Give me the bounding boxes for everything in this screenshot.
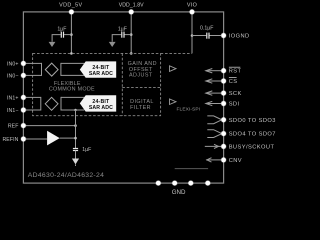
- flexible input diamond (ch0): [45, 63, 58, 76]
- wire SDI with input arrow: [206, 101, 221, 105]
- data flow arrow (gain block to interface): [170, 66, 177, 72]
- svg-text:RST: RST: [229, 69, 242, 75]
- pin IOGND: [221, 33, 226, 38]
- wire CS with input arrow: [206, 79, 221, 83]
- wire to ADC0 (-): [61, 74, 84, 76]
- pin SDO4 TO SDO7: [221, 131, 226, 136]
- svg-text:SAR ADC: SAR ADC: [89, 105, 113, 111]
- svg-text:VDD_1.8V: VDD_1.8V: [119, 2, 144, 8]
- pin GND 1: [156, 181, 161, 186]
- ground (REF): [72, 159, 79, 165]
- svg-text:IN1+: IN1+: [7, 95, 19, 101]
- data flow arrow (filter block to interface): [170, 99, 177, 105]
- pin GND 2: [172, 181, 177, 186]
- node input bar right (ch0): [60, 63, 62, 76]
- svg-text:AD4630-24/AD4632-24: AD4630-24/AD4632-24: [28, 172, 104, 179]
- pin VDD_5V: [69, 10, 74, 15]
- wire VDD_1.8V vertical: [130, 12, 132, 54]
- pin IN1-: [21, 108, 26, 113]
- pin BUSY/SCKOUT: [221, 144, 226, 149]
- dashed divider vertical (digital section): [121, 53, 123, 115]
- chip outline AD4630-24: [23, 12, 223, 183]
- pin GND 3: [188, 181, 193, 186]
- wire buffer output: [60, 137, 76, 139]
- wire IN0-: [26, 74, 42, 76]
- wire cap C2 branch: [112, 35, 121, 42]
- capacitor C4 on REF: [73, 149, 78, 151]
- pin VIO: [190, 10, 195, 15]
- pin CS: [221, 79, 226, 84]
- wire SDO4-SDO7 with output bus arrow: [207, 130, 221, 138]
- op-amp U1 reference buffer: [47, 131, 60, 146]
- svg-text:SDO4 TO SDO7: SDO4 TO SDO7: [229, 132, 276, 138]
- node REF junction: [74, 124, 77, 127]
- pin SDI: [221, 101, 226, 106]
- pin IN0+: [21, 61, 26, 66]
- svg-text:VIO: VIO: [187, 2, 197, 8]
- wire VDD_5V vertical: [70, 12, 72, 54]
- wire cap C3 to IOGND: [192, 35, 206, 37]
- wire to ADC1 (-): [61, 109, 84, 111]
- svg-text:SDO0 TO SDO3: SDO0 TO SDO3: [229, 118, 276, 124]
- pin RST: [221, 68, 226, 73]
- svg-text:IN1−: IN1−: [7, 108, 19, 114]
- svg-text:1µF: 1µF: [118, 27, 127, 33]
- wire REF: [26, 125, 76, 127]
- node buffer output junction: [74, 137, 77, 140]
- label FLEXIBLE COMMON MODE: [49, 81, 95, 93]
- pin IN1+: [21, 95, 26, 100]
- label GAIN AND OFFSET ADJUST: [128, 61, 157, 78]
- wire RST with input arrow: [206, 69, 221, 73]
- node VDD_1.8V box junction: [130, 52, 133, 55]
- ground (C2): [109, 42, 116, 47]
- op-amp ADC0 24-BIT SAR ADC flag: [80, 61, 116, 77]
- ground (C1): [49, 42, 56, 47]
- svg-text:GND: GND: [172, 189, 186, 196]
- svg-text:SAR ADC: SAR ADC: [89, 71, 113, 77]
- wire BUSY/SCKOUT with output arrow: [205, 144, 221, 148]
- node input bar right (ch1): [60, 97, 62, 111]
- svg-text:REFIN: REFIN: [2, 137, 18, 143]
- capacitor C3 0.1uF: [207, 33, 209, 39]
- wire REF vertical: [75, 110, 77, 148]
- svg-text:SCK: SCK: [229, 91, 242, 97]
- capacitor C2 1uF: [122, 32, 124, 38]
- node VDD_5V cap junction: [70, 33, 73, 36]
- svg-text:SDI: SDI: [229, 101, 240, 107]
- node VDD_5V box junction: [70, 52, 73, 55]
- faint divider line bottom right: [175, 168, 208, 170]
- wire CNV with input arrow: [206, 158, 221, 162]
- capacitor C1 1uF: [61, 32, 63, 38]
- pin SDO0 TO SDO3: [221, 117, 226, 122]
- op-amp ADC1 24-BIT SAR ADC flag: [80, 95, 116, 111]
- svg-text:1µF: 1µF: [57, 27, 66, 33]
- dashed box flexible common mode + digital: [33, 53, 161, 115]
- svg-text:REF: REF: [8, 124, 19, 130]
- pin VDD_1.8V: [129, 10, 134, 15]
- wire IN1-: [26, 109, 41, 111]
- label DIGITAL FILTER: [130, 99, 154, 111]
- svg-text:BUSY/SCKOUT: BUSY/SCKOUT: [229, 144, 275, 150]
- svg-text:CS: CS: [229, 79, 238, 85]
- label CS (overline): [229, 78, 238, 85]
- wire cap to ground: [75, 151, 77, 159]
- svg-text:0.1µF: 0.1µF: [200, 25, 213, 31]
- node input bar left (ch0): [41, 63, 43, 76]
- svg-text:ADJUST: ADJUST: [129, 72, 153, 78]
- svg-text:IN0+: IN0+: [7, 61, 19, 67]
- pin REF: [21, 123, 26, 128]
- wire cap C1 branch: [52, 35, 61, 42]
- dashed divider horizontal (gain/filter): [122, 87, 160, 89]
- wire SCK with input arrow: [206, 91, 221, 95]
- flexible input diamond (ch1): [45, 97, 58, 110]
- node VIO cap junction: [191, 34, 194, 37]
- pin IN0-: [21, 73, 26, 78]
- pin SCK: [221, 91, 226, 96]
- wire SDO0-SDO3 with output bus arrow: [207, 116, 221, 124]
- wire VIO vertical: [191, 12, 193, 54]
- svg-text:CNV: CNV: [229, 158, 242, 164]
- dashed top extension to VIO: [161, 52, 192, 54]
- svg-text:COMMON MODE: COMMON MODE: [49, 86, 95, 92]
- pin GND 4: [205, 181, 210, 186]
- node REF to ADC wire junction: [74, 109, 76, 111]
- wire IN0+: [26, 62, 42, 64]
- pin CNV: [221, 158, 226, 163]
- wire REFIN: [26, 138, 47, 140]
- node input bar left (ch1): [40, 97, 42, 111]
- svg-text:1µF: 1µF: [82, 147, 91, 153]
- node VDD_1.8V cap junction: [130, 33, 133, 36]
- svg-text:IOGND: IOGND: [229, 34, 250, 40]
- svg-text:FILTER: FILTER: [130, 105, 151, 111]
- label RST (overline): [229, 67, 242, 74]
- svg-text:VDD_5V: VDD_5V: [59, 2, 82, 8]
- pin REFIN: [21, 137, 26, 142]
- wire IN1+: [26, 96, 41, 98]
- svg-text:FLEXI-SPI: FLEXI-SPI: [177, 106, 201, 112]
- wire to ADC1 (+): [61, 96, 84, 98]
- svg-text:IN0−: IN0−: [7, 73, 19, 79]
- wire to ADC0 (+): [61, 62, 84, 64]
